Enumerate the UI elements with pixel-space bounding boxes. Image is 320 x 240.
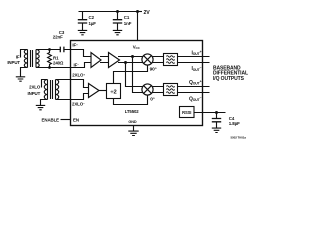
- svg-text:IF−: IF−: [74, 62, 80, 67]
- svg-text:IOUT+: IOUT+: [191, 50, 201, 57]
- wire IOUT- pin: [178, 62, 210, 64]
- wire IOUT+ pin: [178, 56, 210, 58]
- wire QOUT+ pin: [178, 86, 210, 88]
- wire A2 to mixer1 pair: [118, 57, 144, 63]
- wire RSSI out: [194, 112, 226, 114]
- filter F2 lowpass: [164, 84, 178, 96]
- resistor R1: [48, 48, 51, 51]
- svg-text:QOUT−: QOUT−: [189, 96, 202, 103]
- ground IF input: [16, 77, 25, 81]
- wire 2XLO- pin: [56, 94, 89, 100]
- transformer T1 core: [31, 50, 33, 67]
- wire VCC feed: [137, 12, 139, 42]
- ground 2XLO input: [36, 105, 45, 109]
- wire IF+ line: [36, 49, 60, 51]
- chip U1 LT5502: [71, 41, 203, 126]
- node I branch upper: [131, 55, 134, 58]
- wire LO 90 to mixer1: [114, 65, 148, 84]
- svg-text:IOUT−: IOUT−: [191, 66, 201, 73]
- svg-text:1µF: 1µF: [89, 21, 97, 26]
- wire 2XLO+ pin: [56, 80, 89, 88]
- svg-text:EN: EN: [73, 118, 79, 123]
- capacitor C4: [216, 113, 218, 128]
- svg-text:22nF: 22nF: [53, 35, 63, 40]
- svg-text:C2: C2: [89, 15, 95, 20]
- svg-text:VCC: VCC: [133, 44, 141, 50]
- svg-text:C4: C4: [229, 116, 235, 121]
- wire LO 0 to mixer2: [114, 95, 148, 105]
- wire branch to mixer2 upper: [126, 63, 144, 87]
- svg-text:5502 TA01a: 5502 TA01a: [231, 136, 247, 140]
- svg-text:90°: 90°: [150, 67, 157, 73]
- svg-text:IF+: IF+: [72, 43, 78, 48]
- capacitor C1: [116, 10, 119, 13]
- svg-text:GND: GND: [128, 120, 136, 124]
- wire IF- line: [36, 63, 91, 68]
- wire IF input: [21, 50, 28, 58]
- wire branch to mixer2 lower: [133, 57, 144, 93]
- svg-text:QOUT+: QOUT+: [189, 79, 202, 86]
- wire ENABLE: [61, 119, 72, 121]
- wire QOUT- pin: [178, 92, 210, 94]
- ground GND pin: [128, 131, 138, 135]
- svg-text:IF: IF: [16, 55, 20, 60]
- wire mixer1 to filter1: [152, 57, 164, 63]
- wire A3 to divider: [99, 90, 107, 92]
- svg-text:0°: 0°: [150, 97, 155, 103]
- svg-text:2XLO: 2XLO: [29, 84, 41, 89]
- svg-text:1nF: 1nF: [124, 21, 132, 26]
- wire C3 to IF+ pin: [64, 50, 91, 57]
- wire mixer2 to filter2: [152, 87, 164, 93]
- svg-text:÷2: ÷2: [110, 90, 116, 96]
- svg-text:INPUT: INPUT: [28, 91, 41, 96]
- svg-text:LT5502: LT5502: [125, 109, 140, 114]
- capacitor C3: [60, 47, 64, 53]
- ground C4: [212, 128, 221, 132]
- wire A1 to A2 pair: [100, 57, 109, 63]
- divider /2 box: [107, 84, 121, 99]
- wire T1 primary to ground: [21, 68, 28, 77]
- node 2V terminal: [136, 10, 139, 13]
- svg-text:2XLO+: 2XLO+: [72, 73, 85, 78]
- ground C1: [113, 30, 122, 34]
- svg-text:C1: C1: [124, 15, 130, 20]
- svg-text:1.8pF: 1.8pF: [229, 121, 240, 126]
- mixer M1: [142, 54, 153, 65]
- wire T2 primary to ground: [41, 100, 48, 106]
- op-amp A1: [91, 53, 101, 68]
- capacitor C2: [82, 12, 84, 31]
- mixer M2: [142, 84, 153, 95]
- svg-text:2XLO−: 2XLO−: [72, 101, 85, 106]
- transformer T2 primary: [44, 80, 47, 100]
- wire 2XLO input: [42, 80, 48, 88]
- transformer T2 core: [51, 80, 53, 99]
- op-amp A2: [109, 53, 120, 68]
- svg-text:RSSI: RSSI: [182, 110, 191, 115]
- RSSI block: [180, 107, 195, 118]
- svg-text:INPUT: INPUT: [7, 60, 20, 65]
- transformer T1 secondary: [36, 50, 39, 68]
- svg-text:2V: 2V: [144, 10, 151, 16]
- svg-text:240Ω: 240Ω: [53, 61, 64, 66]
- wire 2V stub: [138, 11, 143, 13]
- ground C2: [78, 30, 87, 34]
- wire top supply rail: [79, 11, 138, 13]
- transformer T1 primary: [24, 50, 27, 68]
- svg-text:R1: R1: [53, 55, 59, 60]
- svg-text:ENABLE: ENABLE: [42, 118, 60, 123]
- op-amp A3 2XLO: [89, 84, 100, 98]
- svg-text:I/Q OUTPUTS: I/Q OUTPUTS: [213, 76, 245, 82]
- wire GND pin: [133, 126, 135, 131]
- node I branch lower: [124, 61, 127, 64]
- node RSSI C4: [215, 111, 218, 114]
- filter F1 lowpass: [164, 54, 178, 66]
- transformer T2 secondary: [56, 80, 59, 100]
